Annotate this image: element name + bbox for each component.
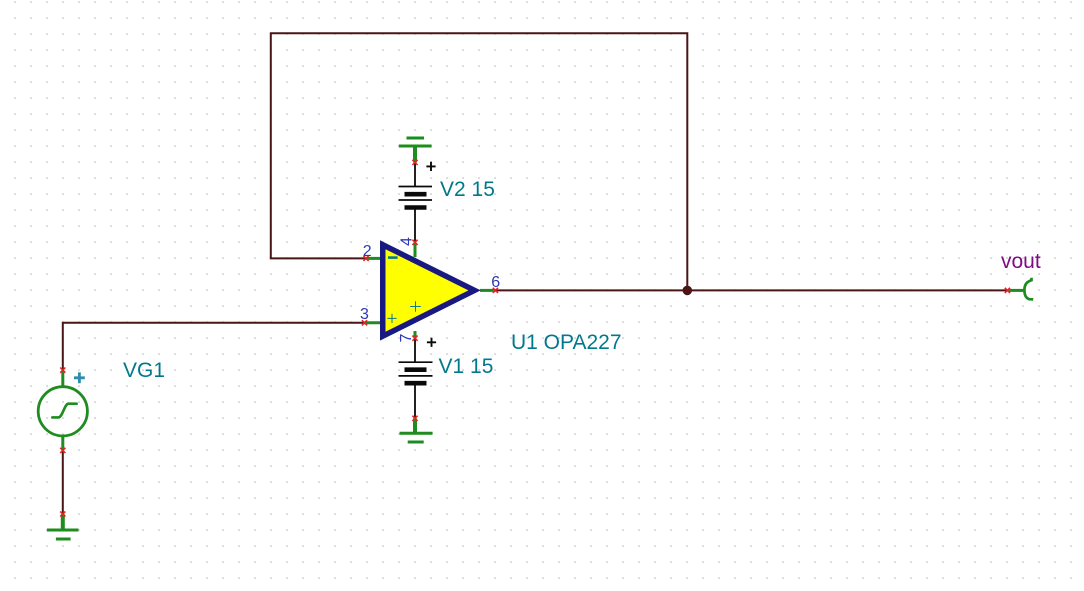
svg-text:vout: vout bbox=[1001, 250, 1041, 273]
svg-text:V2 15: V2 15 bbox=[440, 178, 495, 201]
svg-text:U1 OPA227: U1 OPA227 bbox=[511, 331, 622, 354]
svg-text:4: 4 bbox=[399, 237, 416, 246]
svg-text:VG1: VG1 bbox=[123, 359, 165, 382]
svg-text:V1 15: V1 15 bbox=[439, 355, 494, 378]
svg-text:6: 6 bbox=[491, 274, 500, 291]
svg-text:2: 2 bbox=[363, 243, 372, 260]
svg-text:7: 7 bbox=[398, 334, 415, 343]
svg-text:3: 3 bbox=[360, 306, 369, 323]
